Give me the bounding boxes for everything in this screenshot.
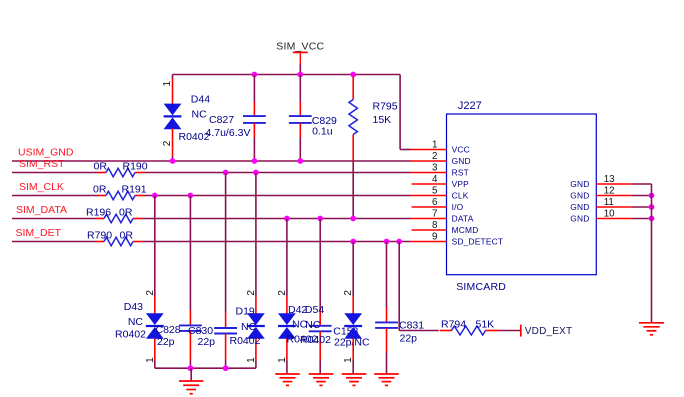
resistor R191 zigzag bbox=[106, 191, 135, 199]
junction dot SIM_DATA/R795 bbox=[350, 216, 356, 222]
resistor R196 right pin (red) bbox=[133, 218, 143, 220]
svg-text:R0402: R0402 bbox=[300, 334, 331, 346]
svg-text:22p: 22p bbox=[198, 336, 216, 348]
junction dot bus/C827 bbox=[252, 72, 258, 78]
resistor R190 zigzag bbox=[106, 168, 135, 176]
wire pin 12 to ground rail bbox=[631, 195, 651, 197]
ground for C831 bbox=[374, 374, 399, 385]
wire USIM_GND bbox=[12, 160, 411, 162]
capacitor C828 top pin (red) bbox=[189, 310, 191, 325]
wire pin 13 to ground rail bbox=[631, 183, 651, 185]
svg-text:2: 2 bbox=[343, 290, 354, 296]
wire pin 11 to ground rail bbox=[631, 206, 651, 208]
capacitor C827 top pin (red) bbox=[253, 102, 255, 117]
wire R794 to VDD_EXT bbox=[499, 330, 521, 332]
resistor R191 left pin (red) bbox=[97, 195, 106, 197]
wire D42 from signal row bbox=[286, 219, 288, 297]
wire SIM_RST right bbox=[145, 172, 411, 174]
junction dot SIM_DET/D54 bbox=[350, 239, 356, 245]
wire C828 to bottom bus bbox=[189, 361, 191, 369]
svg-text:SIM_CLK: SIM_CLK bbox=[19, 181, 64, 193]
svg-text:VCC: VCC bbox=[452, 144, 470, 154]
diode D43 pin 2 (red) bbox=[154, 296, 156, 314]
svg-text:RST: RST bbox=[452, 167, 469, 177]
diode D42 pin 1 (red) bbox=[286, 338, 288, 360]
svg-text:C831: C831 bbox=[399, 319, 424, 331]
diode D54 pin 2 (red) bbox=[352, 296, 354, 314]
resistor R196 left pin (red) bbox=[95, 218, 104, 220]
resistor R795 bottom pin (red) bbox=[352, 135, 354, 164]
diode D19 symbol bbox=[247, 313, 265, 339]
wire pin 10 to ground rail bbox=[631, 218, 651, 220]
svg-text:SIM_DET: SIM_DET bbox=[16, 227, 62, 239]
wire D54 to ground bbox=[352, 361, 354, 375]
resistor R790 left pin (red) bbox=[95, 241, 104, 243]
svg-text:8: 8 bbox=[432, 220, 438, 231]
wire D44 to USIM_GND line bbox=[172, 156, 174, 161]
svg-text:0.1u: 0.1u bbox=[312, 125, 333, 137]
svg-text:NC: NC bbox=[241, 321, 257, 333]
junction dot SIM_CLK/D43 bbox=[152, 193, 158, 199]
svg-text:J227: J227 bbox=[458, 100, 482, 112]
svg-text:R794: R794 bbox=[441, 318, 466, 330]
junction dot SIM_RST/C830 bbox=[223, 170, 229, 176]
capacitor C831 top pin (red) bbox=[386, 307, 388, 322]
wire SIM_DET down to R794 row bbox=[398, 242, 400, 331]
svg-text:R0402: R0402 bbox=[230, 335, 261, 347]
resistor R190 left pin (red) bbox=[97, 172, 106, 174]
J227 pin 12 line bbox=[596, 195, 631, 197]
capacitor C828 bottom pin (red) bbox=[189, 331, 191, 361]
svg-text:D19: D19 bbox=[236, 305, 255, 317]
svg-text:11: 11 bbox=[604, 197, 614, 208]
resistor R795 zigzag bbox=[349, 100, 357, 135]
svg-text:GND: GND bbox=[570, 202, 589, 212]
wire bottom bus bbox=[155, 367, 256, 369]
wire D42 to ground bbox=[286, 361, 288, 375]
wire D54 from signal row bbox=[352, 242, 354, 297]
wire C831 from SIM_DET bbox=[386, 242, 388, 308]
capacitor C831 symbol bbox=[375, 322, 398, 328]
diode D44 pin 1 bottom (red) bbox=[172, 128, 174, 156]
J227 pin 11 line bbox=[596, 206, 631, 208]
svg-text:7: 7 bbox=[432, 208, 437, 219]
power port VDD_EXT bar bbox=[520, 325, 522, 337]
resistor R794 right pin (red) bbox=[486, 330, 499, 332]
wire SIM_VCC bus horizontal bbox=[173, 74, 401, 76]
svg-text:VDD_EXT: VDD_EXT bbox=[525, 326, 573, 337]
wire SIM_CLK left bbox=[12, 195, 97, 197]
wire C828 from SIM_CLK bbox=[189, 196, 191, 311]
J227 pin 9 line bbox=[411, 241, 447, 243]
wire C827 to USIM_GND line bbox=[253, 138, 255, 162]
wire C153 from SIM_DATA bbox=[319, 219, 321, 311]
diode D19 pin 2 (red) bbox=[255, 296, 257, 314]
capacitor C830 top pin (red) bbox=[225, 312, 227, 328]
capacitor C153 top pin (red) bbox=[319, 310, 321, 326]
connector J227 body bbox=[447, 114, 597, 275]
svg-text:2: 2 bbox=[162, 140, 173, 146]
ground for C153 bbox=[309, 374, 334, 385]
svg-text:SD_DETECT: SD_DETECT bbox=[452, 236, 504, 246]
svg-text:NC: NC bbox=[305, 319, 321, 331]
svg-text:SIM_VCC: SIM_VCC bbox=[276, 40, 324, 52]
svg-text:D43: D43 bbox=[124, 301, 143, 313]
wire bus to C829 bbox=[299, 75, 301, 102]
capacitor C827 symbol bbox=[243, 116, 266, 123]
J227 pin 10 line bbox=[596, 218, 631, 220]
svg-text:3: 3 bbox=[432, 162, 438, 173]
junction dot gnd rail pin11 bbox=[649, 204, 655, 210]
J227 pin 5 line bbox=[411, 195, 447, 197]
svg-text:R0402: R0402 bbox=[115, 329, 146, 341]
svg-text:GND: GND bbox=[570, 179, 589, 189]
capacitor C830 bottom pin (red) bbox=[225, 334, 227, 361]
svg-text:0R: 0R bbox=[93, 183, 107, 195]
wire SIM_DATA right bbox=[143, 218, 411, 220]
svg-text:4.7u/6.3V: 4.7u/6.3V bbox=[206, 127, 251, 139]
diode D43 pin 1 (red) bbox=[154, 338, 156, 360]
svg-text:GND: GND bbox=[570, 190, 589, 200]
wire C831 to ground bbox=[386, 352, 388, 374]
resistor R794 left pin (red) bbox=[440, 330, 452, 332]
svg-text:51K: 51K bbox=[476, 318, 495, 330]
svg-text:DATA: DATA bbox=[452, 213, 474, 223]
svg-text:9: 9 bbox=[432, 231, 437, 242]
J227 pin 6 line bbox=[412, 206, 447, 208]
wire C830 to bottom bus bbox=[225, 361, 227, 369]
svg-text:D44: D44 bbox=[191, 94, 210, 106]
J227 pin 8 line bbox=[412, 229, 447, 231]
junction dot SIM_DET/R794 bbox=[396, 239, 402, 245]
svg-text:NC: NC bbox=[192, 108, 208, 120]
power port SIM_VCC bar bbox=[293, 51, 308, 53]
svg-text:12: 12 bbox=[604, 185, 615, 196]
diode D19 pin 1 (red) bbox=[255, 338, 257, 360]
wire R794 row left bbox=[399, 330, 439, 332]
svg-text:USIM_GND: USIM_GND bbox=[18, 146, 74, 158]
svg-text:D54: D54 bbox=[305, 304, 324, 316]
wire D43 to bottom bus bbox=[154, 361, 156, 369]
capacitor C829 symbol bbox=[289, 116, 312, 123]
svg-text:2: 2 bbox=[145, 290, 156, 296]
diode D43 symbol bbox=[146, 313, 164, 339]
svg-text:C827: C827 bbox=[209, 114, 234, 126]
diode D44 symbol bbox=[164, 104, 182, 130]
svg-text:0R: 0R bbox=[120, 229, 134, 241]
svg-text:R196: R196 bbox=[86, 206, 111, 218]
wire bus to C827 bbox=[253, 75, 255, 102]
J227 pin 2 line bbox=[411, 160, 447, 162]
svg-text:6: 6 bbox=[432, 197, 438, 208]
diode D44 pin 2 top (red) bbox=[172, 79, 174, 105]
wire from corner to J227 pin1 bbox=[400, 149, 410, 151]
svg-text:1: 1 bbox=[162, 81, 173, 87]
diode D54 pin 1 (red) bbox=[352, 338, 354, 360]
svg-text:GND: GND bbox=[452, 156, 471, 166]
svg-text:MCMD: MCMD bbox=[452, 225, 479, 235]
ground for D42 bbox=[275, 374, 300, 385]
wire D19 to bottom bus bbox=[255, 361, 257, 369]
junction dot SIM_DATA/C153 bbox=[317, 216, 323, 222]
junction dot USIM_GND/C827 bbox=[252, 158, 258, 164]
diode D42 pin 2 (red) bbox=[286, 296, 288, 314]
wire C829 to USIM_GND line bbox=[299, 138, 301, 162]
capacitor C153 symbol bbox=[309, 326, 332, 332]
capacitor C829 bottom pin (red) bbox=[299, 123, 301, 138]
svg-text:2: 2 bbox=[277, 290, 288, 296]
svg-text:2: 2 bbox=[432, 151, 437, 162]
power port SIM_VCC stem bbox=[299, 52, 301, 64]
wire C830 from SIM_RST bbox=[225, 173, 227, 313]
svg-text:SIM_DATA: SIM_DATA bbox=[16, 204, 67, 216]
wire SIM_CLK right bbox=[145, 195, 411, 197]
svg-text:22p: 22p bbox=[157, 336, 175, 348]
junction dot bus/R795 bbox=[350, 72, 356, 78]
svg-text:15K: 15K bbox=[373, 114, 392, 126]
capacitor C827 bottom pin (red) bbox=[253, 123, 255, 138]
resistor R196 zigzag bbox=[104, 214, 133, 222]
diode D42 symbol bbox=[278, 313, 296, 339]
svg-text:10: 10 bbox=[604, 208, 615, 219]
svg-text:13: 13 bbox=[604, 174, 615, 185]
capacitor C829 top pin (red) bbox=[299, 102, 301, 117]
wire SIM_DATA left bbox=[12, 218, 95, 220]
J227 pin 4 line bbox=[412, 183, 447, 185]
svg-text:1: 1 bbox=[432, 139, 437, 150]
capacitor C828 symbol bbox=[179, 325, 202, 331]
junction dot bottom bus/C830 bbox=[223, 365, 229, 371]
resistor R794 zigzag bbox=[452, 326, 486, 335]
junction dot SIM_DATA/D42 bbox=[284, 216, 290, 222]
junction dot SIM_DET/C831 bbox=[384, 239, 390, 245]
capacitor C831 bottom pin (red) bbox=[386, 328, 388, 352]
junction dot gnd rail pin12 bbox=[649, 193, 655, 199]
wire SIM_DET right bbox=[143, 241, 411, 243]
J227 pin 3 line bbox=[411, 172, 447, 174]
resistor R790 zigzag bbox=[104, 237, 133, 245]
J227 pin 1 line bbox=[411, 149, 447, 151]
junction dot bus/SIM_VCC/C829 bbox=[297, 72, 303, 78]
svg-text:4: 4 bbox=[432, 174, 438, 185]
svg-text:C828: C828 bbox=[156, 324, 181, 336]
junction dot USIM_GND/C829 bbox=[297, 158, 303, 164]
resistor R790 right pin (red) bbox=[133, 241, 143, 243]
wire D19 from signal row bbox=[255, 173, 257, 297]
svg-text:NC: NC bbox=[128, 316, 144, 328]
resistor R191 right pin (red) bbox=[135, 195, 145, 197]
svg-text:R795: R795 bbox=[373, 100, 398, 112]
svg-text:SIMCARD: SIMCARD bbox=[456, 281, 506, 293]
svg-text:0R: 0R bbox=[94, 161, 108, 173]
svg-text:R190: R190 bbox=[123, 161, 148, 173]
wire bus left corner down to D44 bbox=[172, 75, 174, 79]
svg-text:5: 5 bbox=[432, 185, 438, 196]
junction dot USIM_GND/D44 bbox=[170, 158, 176, 164]
resistor R190 right pin (red) bbox=[135, 172, 145, 174]
junction dot bottom bus/C828 bbox=[188, 365, 194, 371]
svg-text:CLK: CLK bbox=[452, 190, 469, 200]
wire ground rail vertical bbox=[651, 184, 653, 323]
svg-text:0R: 0R bbox=[119, 206, 133, 218]
wire D43 from signal row bbox=[154, 196, 156, 297]
svg-text:22p: 22p bbox=[400, 332, 418, 344]
svg-text:I/O: I/O bbox=[452, 202, 464, 212]
junction dot SIM_RST/D19 bbox=[253, 170, 259, 176]
svg-text:GND: GND bbox=[570, 213, 589, 223]
svg-text:R790: R790 bbox=[87, 229, 112, 241]
wire bottom bus ground stem bbox=[190, 368, 192, 381]
svg-text:2: 2 bbox=[246, 290, 257, 296]
svg-text:SIM_RST: SIM_RST bbox=[19, 158, 65, 170]
wire R795 to SIM_DATA line bbox=[352, 163, 354, 219]
wire SIM_DET left bbox=[12, 241, 95, 243]
junction dot gnd rail pin10 bbox=[649, 216, 655, 222]
ground for J227 shield bbox=[639, 323, 664, 335]
wire bus right corner down to pin1 bbox=[399, 75, 401, 150]
resistor R795 top pin (red) bbox=[352, 77, 354, 100]
svg-text:VPP: VPP bbox=[452, 179, 470, 189]
ground for D54 bbox=[342, 374, 367, 385]
svg-text:R191: R191 bbox=[122, 183, 147, 195]
junction dot SIM_CLK/C828 bbox=[188, 193, 194, 199]
capacitor C830 symbol bbox=[214, 328, 237, 334]
wire SIM_RST left bbox=[12, 172, 97, 174]
J227 pin 13 line bbox=[596, 183, 631, 185]
J227 pin 7 line bbox=[411, 218, 447, 220]
capacitor C153 bottom pin (red) bbox=[319, 331, 321, 360]
ground for C828/C830 cluster bbox=[179, 381, 204, 394]
diode D54 symbol bbox=[344, 313, 362, 339]
wire C153 to ground bbox=[319, 361, 321, 375]
